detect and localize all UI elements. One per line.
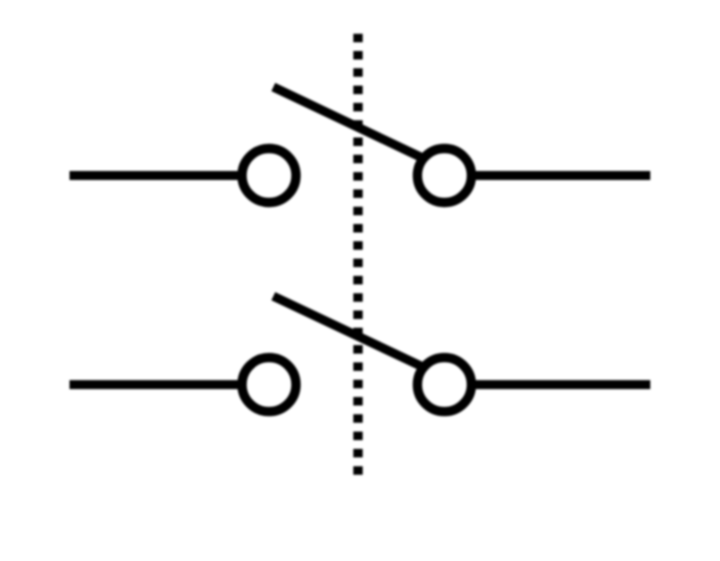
mechanical linkage (dashed gang line) <box>353 34 362 475</box>
terminal circle (switch S1 pole 1, left contact) <box>242 149 296 203</box>
terminal circle (switch S1 pole 2, left contact) <box>242 358 296 412</box>
wire (pole 1 right lead) <box>472 171 651 180</box>
terminal circle (switch S1 pole 1, right contact) <box>417 149 471 203</box>
wire (pole 2 left lead) <box>70 380 243 389</box>
wire (pole 2 right lead) <box>472 380 651 389</box>
switch blade (pole 2) <box>273 296 420 366</box>
terminal circle (switch S1 pole 2, right contact) <box>417 358 471 412</box>
switch blade (pole 1) <box>273 87 420 157</box>
wire (pole 1 left lead) <box>70 171 243 180</box>
